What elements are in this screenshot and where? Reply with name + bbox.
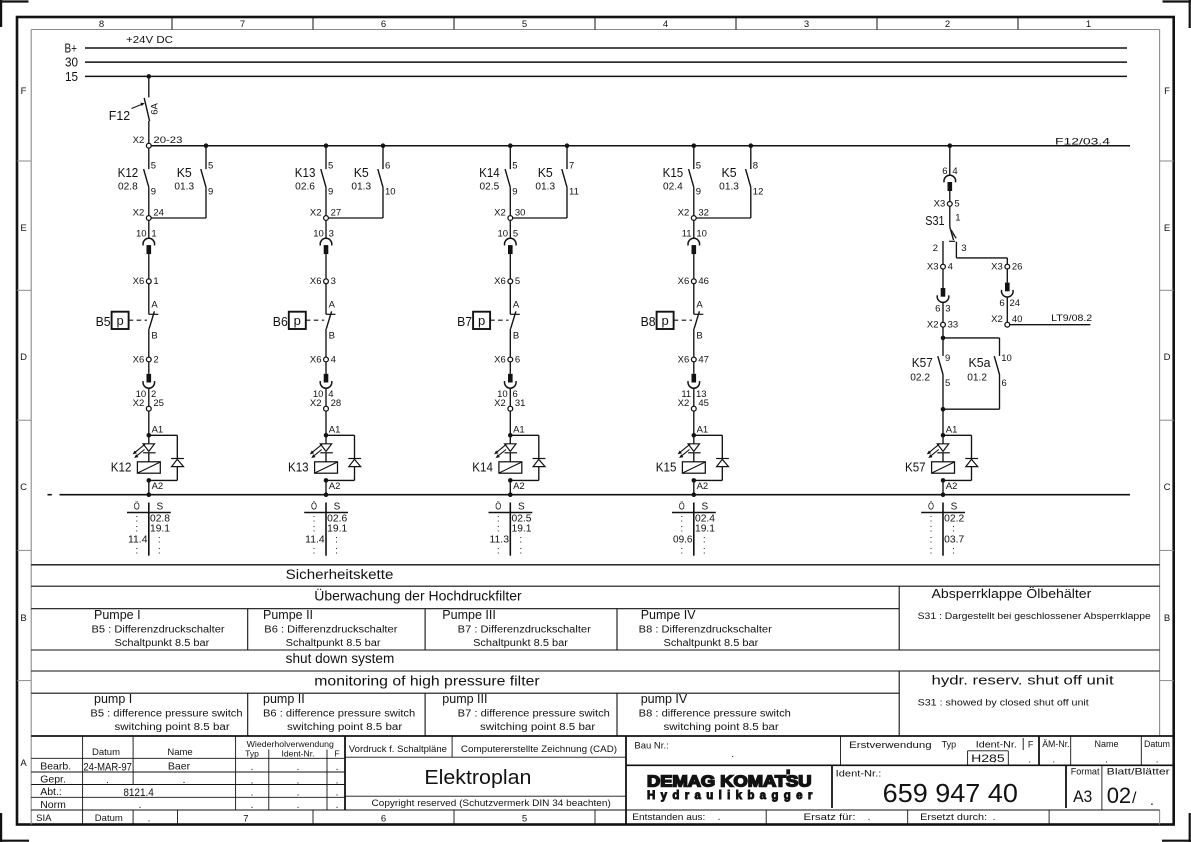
svg-text:11.4: 11.4: [128, 535, 148, 546]
svg-text:A2: A2: [946, 481, 958, 492]
net 30 rail: [65, 55, 1127, 70]
svg-text::: :: [497, 545, 500, 556]
Name header and dot: [1094, 739, 1118, 765]
svg-text:S: S: [334, 501, 341, 512]
svg-text:.: .: [148, 814, 151, 825]
terminal X6:47: [678, 354, 709, 365]
svg-text:K5a: K5a: [969, 355, 992, 370]
relay coil K12: [111, 453, 161, 475]
svg-text:.: .: [251, 762, 254, 773]
wire X2:28 to A1: [325, 411, 327, 435]
contact cross reference table of K15: [672, 500, 716, 556]
terminal X6:2: [133, 354, 159, 365]
svg-text::: :: [680, 545, 683, 556]
svg-text:.: .: [139, 800, 142, 811]
svg-text:B5 : difference pressure switc: B5 : difference pressure switch: [90, 708, 242, 719]
terminal X6:46: [678, 276, 709, 287]
svg-text:Absperrklappe Ölbehälter: Absperrklappe Ölbehälter: [932, 587, 1092, 601]
terminal X3:26: [991, 261, 1022, 272]
Datum header and dot: [1144, 739, 1170, 765]
svg-text:.: .: [1028, 754, 1031, 765]
node A1 of K57: [941, 425, 958, 438]
svg-text:02.8: 02.8: [118, 182, 138, 193]
svg-text:4: 4: [663, 19, 668, 30]
svg-text:9: 9: [208, 187, 213, 198]
connector 10|6 (plug-socket): [497, 362, 518, 406]
svg-text:Name: Name: [1094, 739, 1118, 749]
row title shut down system: [286, 651, 395, 666]
bottom band left cells: [36, 813, 527, 825]
svg-text:.: .: [183, 775, 186, 786]
junction bus/K13 branch: [324, 143, 329, 148]
svg-text:p: p: [478, 313, 485, 328]
svg-text:Bau Nr.:: Bau Nr.:: [634, 741, 668, 752]
column pump III (difference pressure switch B7): [442, 692, 610, 733]
svg-text:B: B: [513, 331, 519, 342]
minus supply rail: [60, 494, 1131, 496]
svg-text:A1: A1: [697, 425, 709, 436]
svg-text:3: 3: [331, 276, 336, 287]
svg-text:02.6: 02.6: [295, 182, 315, 193]
corner mark top-right: [1163, 0, 1191, 28]
svg-text:5: 5: [151, 160, 156, 171]
svg-text:7: 7: [243, 814, 248, 825]
svg-text:31: 31: [515, 398, 526, 409]
svg-text::: :: [135, 524, 138, 535]
auxiliary contact K5 01.3 branch 2: [351, 146, 395, 218]
svg-text:6: 6: [381, 814, 386, 825]
contact cross reference table of K13: [304, 500, 348, 556]
svg-text:5: 5: [328, 160, 333, 171]
svg-text:25: 25: [153, 398, 164, 409]
junction on rail 15: [147, 74, 152, 79]
auxiliary contact K5 01.3 branch 3: [535, 146, 578, 218]
svg-text:X6: X6: [678, 276, 690, 287]
svg-text:6A: 6A: [150, 103, 161, 115]
svg-text:Überwachung der Hochdruckfilte: Überwachung der Hochdruckfilter: [314, 588, 522, 603]
svg-text::: :: [135, 545, 138, 556]
svg-text:2: 2: [153, 354, 158, 365]
Blatt/Blaetter box: [1107, 767, 1170, 809]
svg-text:.: .: [731, 749, 734, 760]
svg-text:5: 5: [513, 229, 518, 240]
wire K5 to X2:32: [696, 217, 751, 219]
Typ header and H285: [942, 740, 1005, 765]
svg-text:4: 4: [331, 354, 336, 365]
svg-text:pump III: pump III: [442, 692, 487, 706]
copyright line: [372, 798, 611, 809]
svg-text:X3: X3: [927, 261, 939, 272]
svg-text:01.2: 01.2: [967, 372, 987, 383]
svg-text:Wiederholverwendung: Wiederholverwendung: [247, 739, 335, 749]
svg-text:K57: K57: [905, 460, 926, 475]
svg-text:A: A: [20, 758, 27, 769]
relay contact K15 (pins 5/9): [663, 146, 701, 216]
selector switch S31 (shown closed valve position): [925, 206, 966, 254]
svg-text:B: B: [1164, 613, 1170, 624]
corner mark bottom-right: [1162, 813, 1191, 842]
svg-text:S: S: [518, 501, 525, 512]
connector 6|24 (plug-socket): [999, 269, 1020, 322]
junction bus/K5 branch 2: [381, 143, 386, 148]
minus polarity mark: [48, 494, 52, 496]
pressure switch B6 (NC, opens at 8.5 bar): [273, 284, 336, 357]
column Pumpe III (Differenzdruckschalter B7): [442, 608, 591, 649]
terminal X6:3: [310, 276, 336, 287]
svg-text:Ersetzt durch:: Ersetzt durch:: [920, 812, 987, 822]
svg-text:.: .: [336, 800, 339, 811]
svg-text:S: S: [951, 501, 958, 512]
svg-text:Datum: Datum: [1144, 739, 1170, 749]
svg-text:Typ: Typ: [245, 749, 259, 759]
svg-text:Elektroplan: Elektroplan: [424, 767, 531, 789]
junction of K12 on minus rail: [147, 492, 152, 497]
svg-text:switching point 8.5 bar: switching point 8.5 bar: [287, 722, 403, 733]
wire F12 to terminal X2: [148, 121, 150, 143]
left row letter band: [17, 86, 31, 769]
connector 11|10 (plug-socket): [682, 220, 707, 279]
Ident-Nr header and dot: [976, 740, 1017, 766]
svg-text:A2: A2: [152, 481, 164, 492]
svg-text:Entstanden aus:: Entstanden aus:: [632, 812, 705, 822]
wire rail-15 to F12: [148, 76, 150, 97]
svg-text:B6: B6: [273, 314, 288, 329]
svg-text:B8 : Differenzdruckschalter: B8 : Differenzdruckschalter: [639, 624, 773, 635]
relay coil K14: [472, 453, 522, 475]
svg-text:6: 6: [999, 298, 1004, 309]
svg-text:Gepr.: Gepr.: [40, 773, 66, 785]
svg-text:1: 1: [151, 229, 156, 240]
svg-text:Pumpe IV: Pumpe IV: [641, 608, 697, 622]
terminal X6:5: [494, 276, 520, 287]
svg-text:5: 5: [696, 160, 701, 171]
contact cross reference table of K57: [921, 500, 965, 556]
svg-text:28: 28: [331, 398, 342, 409]
row title Ueberwachung der Hochdruckfilter: [314, 588, 522, 603]
svg-text::: :: [158, 535, 161, 546]
svg-text:.: .: [297, 776, 300, 787]
svg-text:30: 30: [515, 207, 526, 218]
svg-text::: :: [335, 545, 338, 556]
svg-text:B8 : difference pressure switc: B8 : difference pressure switch: [639, 708, 791, 719]
svg-text:A: A: [151, 300, 158, 311]
svg-text:K5: K5: [177, 165, 192, 180]
svg-text:Blatt/Blätter: Blatt/Blätter: [1107, 767, 1170, 778]
svg-text:K12: K12: [118, 165, 139, 180]
column pump I (difference pressure switch B5): [90, 692, 242, 733]
svg-text:X2: X2: [927, 320, 939, 331]
svg-text:X2: X2: [133, 207, 145, 218]
svg-text:Schaltpunkt 8.5 bar: Schaltpunkt 8.5 bar: [115, 638, 211, 649]
svg-text:.: .: [1052, 754, 1055, 765]
svg-text:6: 6: [935, 303, 940, 314]
svg-text:3: 3: [804, 19, 809, 30]
svg-text::: :: [519, 545, 522, 556]
svg-text:p: p: [294, 313, 301, 328]
svg-text:K15: K15: [656, 460, 677, 475]
Format A3 box: [1071, 767, 1100, 807]
svg-text:S: S: [156, 501, 163, 512]
svg-text:F12/03.4: F12/03.4: [1055, 137, 1110, 148]
svg-text:.: .: [1150, 792, 1154, 808]
column pump II (difference pressure switch B6): [263, 692, 415, 733]
svg-text:A1: A1: [946, 425, 958, 436]
svg-text:F12: F12: [109, 108, 130, 123]
svg-text:X2: X2: [133, 135, 145, 146]
terminal X3:4: [927, 261, 953, 272]
svg-text:X2: X2: [678, 207, 690, 218]
svg-text:.: .: [336, 788, 339, 799]
svg-text:S31: S31: [925, 213, 944, 228]
node A1 of K14: [508, 425, 525, 438]
svg-text:X3: X3: [991, 261, 1003, 272]
connector 10|5 (plug-socket): [498, 220, 519, 279]
svg-text:X6: X6: [494, 354, 506, 365]
svg-text:B7 : difference pressure switc: B7 : difference pressure switch: [458, 708, 610, 719]
terminal X2:27: [310, 207, 341, 220]
svg-text:5: 5: [208, 160, 213, 171]
svg-text:ÄM-Nr.: ÄM-Nr.: [1042, 739, 1069, 749]
LED indicator of K12: [133, 435, 156, 458]
bottom band grid: [178, 810, 1050, 825]
node A2 of K14: [508, 478, 525, 495]
connector 10|1 (plug-socket): [136, 220, 157, 279]
auxiliary contact K5 01.3 branch 4: [719, 146, 763, 218]
row Norm entry: [40, 799, 338, 811]
terminal X2:28: [310, 398, 341, 411]
wire S31 pin 2 to X3:4: [942, 241, 944, 264]
terminal X2:32: [678, 207, 709, 220]
junction bus/K5 branch 3: [565, 143, 570, 148]
terminal X6:1: [133, 276, 159, 287]
contact cross reference table of K14: [489, 500, 533, 556]
terminal X2:20-23: [133, 135, 183, 148]
svg-text:Schaltpunkt 8.5 bar: Schaltpunkt 8.5 bar: [286, 638, 382, 649]
svg-text:B: B: [20, 613, 26, 624]
pressure switch B5 (NC, opens at 8.5 bar): [96, 284, 159, 357]
svg-text:7: 7: [240, 19, 245, 30]
svg-text:6: 6: [515, 354, 520, 365]
terminal X2:40: [991, 314, 1022, 327]
svg-text:02.2: 02.2: [910, 372, 930, 383]
svg-text:B: B: [329, 331, 335, 342]
svg-text:Ö: Ö: [311, 500, 317, 512]
svg-text:9: 9: [151, 187, 156, 198]
terminal X2:31: [494, 398, 525, 411]
svg-text:p: p: [661, 313, 668, 328]
node A1 of K13: [324, 425, 341, 438]
svg-text:A2: A2: [697, 481, 709, 492]
svg-text:pump IV: pump IV: [641, 692, 688, 706]
net 15 rail: [65, 69, 1127, 84]
F header and dot: [1028, 740, 1034, 766]
svg-text::: :: [952, 545, 955, 556]
wire junction to A1 of K57: [942, 409, 944, 435]
svg-text:.: .: [251, 788, 254, 799]
LED indicator of K13: [310, 435, 333, 458]
svg-text:D: D: [1164, 352, 1171, 363]
svg-text:/: /: [1132, 790, 1137, 807]
svg-text:5: 5: [512, 160, 517, 171]
svg-text:p: p: [116, 313, 123, 328]
svg-text:Sicherheitskette: Sicherheitskette: [286, 567, 394, 582]
bottom band revision cells: [632, 812, 995, 823]
svg-text:.: .: [718, 812, 721, 823]
junction of K57 on minus rail: [941, 492, 946, 497]
terminal X6:4: [310, 354, 336, 365]
svg-text:H285: H285: [971, 753, 1005, 765]
junction node above K57 contact: [941, 336, 946, 341]
svg-text:01.3: 01.3: [174, 182, 194, 193]
svg-text:F: F: [1164, 86, 1170, 97]
node A1 of K15: [692, 425, 709, 438]
svg-text:.: .: [106, 775, 109, 786]
svg-text:3: 3: [945, 303, 950, 314]
junction bus/K15 branch: [692, 143, 697, 148]
svg-text:B8: B8: [641, 314, 656, 329]
column Pumpe IV (Differenzdruckschalter B8): [639, 608, 773, 649]
svg-text:19.1: 19.1: [327, 524, 347, 535]
svg-text:01.3: 01.3: [351, 182, 371, 193]
svg-text:9: 9: [512, 187, 517, 198]
svg-text:09.6: 09.6: [673, 535, 693, 546]
relay contact K12 (pins 5/9): [118, 148, 156, 216]
junction of K15 on minus rail: [692, 492, 697, 497]
LED indicator of K15: [678, 435, 701, 458]
svg-text:.: .: [297, 800, 300, 811]
svg-text:K14: K14: [472, 460, 493, 475]
svg-text:Typ: Typ: [942, 740, 957, 750]
svg-text:X6: X6: [310, 276, 322, 287]
svg-text:A1: A1: [152, 425, 164, 436]
relay contact K13 (pins 5/9): [295, 146, 333, 216]
svg-text:C: C: [1164, 482, 1171, 493]
terminal X2:25: [133, 398, 164, 411]
terminal X3:5: [934, 199, 960, 210]
wire X2:25 to A1: [148, 411, 150, 435]
junction bus/K5 branch 1: [204, 143, 209, 148]
svg-text:X2: X2: [310, 398, 322, 409]
svg-text:A: A: [329, 300, 336, 311]
svg-text:1: 1: [1086, 19, 1091, 30]
svg-text:6: 6: [385, 160, 390, 171]
svg-text:X6: X6: [310, 354, 322, 365]
freewheel diode of K14: [510, 435, 545, 480]
svg-text:19.1: 19.1: [150, 524, 170, 535]
svg-text:26: 26: [1012, 261, 1023, 272]
svg-text:11.4: 11.4: [305, 535, 325, 546]
svg-text:8121.4: 8121.4: [123, 787, 154, 799]
fuse switch F12 6A: [109, 98, 161, 123]
svg-text:B: B: [696, 331, 702, 342]
svg-text:LT9/08.2: LT9/08.2: [1051, 313, 1092, 324]
parallel contact K5a 01.2 (pins 10/6): [943, 338, 1012, 409]
connector 6|4 (plug-socket): [942, 146, 957, 202]
relay coil K57: [905, 453, 955, 475]
wire K5 to X2:27: [328, 217, 383, 219]
svg-text:6: 6: [1002, 378, 1007, 389]
svg-text:02.5: 02.5: [480, 182, 500, 193]
Vordruck header labels: [349, 744, 617, 755]
svg-text:Ö: Ö: [134, 500, 140, 512]
svg-text:X2: X2: [678, 398, 690, 409]
svg-text:.: .: [1105, 754, 1108, 765]
svg-text:K12: K12: [111, 460, 132, 475]
svg-text:B+: B+: [65, 41, 78, 56]
svg-text:47: 47: [698, 354, 709, 365]
freewheel diode of K57: [943, 435, 978, 480]
svg-text:switching point 8.5 bar: switching point 8.5 bar: [115, 722, 231, 733]
node A2 of K13: [324, 478, 341, 495]
svg-text:Format: Format: [1071, 767, 1100, 778]
title block right grid: [626, 736, 1174, 825]
svg-text:DEMAG KOMATSU: DEMAG KOMATSU: [647, 774, 812, 791]
svg-text:5: 5: [515, 276, 520, 287]
svg-text:.: .: [868, 812, 871, 823]
svg-text:24: 24: [1010, 298, 1021, 309]
Vordruck box grid: [345, 736, 626, 796]
svg-text:F: F: [334, 749, 339, 759]
svg-text:Pumpe II: Pumpe II: [263, 608, 313, 622]
corner mark top-left: [0, 0, 29, 27]
svg-text:K5: K5: [354, 165, 369, 180]
junction of K13 on minus rail: [324, 492, 329, 497]
svg-text:10: 10: [136, 229, 147, 240]
svg-text:Ident-Nr.: Ident-Nr.: [976, 740, 1017, 750]
svg-text:A1: A1: [513, 425, 525, 436]
column Absperrklappe Oelbehaelter (S31): [918, 587, 1151, 621]
svg-text:A2: A2: [329, 481, 341, 492]
title block top line: [31, 735, 1174, 737]
left table header labels: [92, 739, 340, 759]
connector 10|2 (plug-socket): [136, 362, 157, 406]
Bau Nr. box: [634, 741, 734, 761]
right row letter band: [1160, 86, 1174, 680]
svg-text:K14: K14: [479, 165, 500, 180]
svg-text:E: E: [20, 223, 26, 234]
svg-text:A3: A3: [1073, 787, 1092, 806]
svg-text:K57: K57: [912, 355, 933, 370]
svg-text:hydr. reserv. shut off unit: hydr. reserv. shut off unit: [932, 674, 1115, 688]
svg-text:A: A: [696, 300, 703, 311]
svg-text:F: F: [1028, 740, 1034, 750]
svg-text:20-23: 20-23: [153, 135, 182, 146]
svg-text:.: .: [1156, 754, 1159, 765]
bus wire from X2 20-23: [151, 137, 1130, 148]
terminal X2:33: [927, 320, 958, 331]
svg-text:K13: K13: [288, 460, 309, 475]
svg-text::: :: [158, 545, 161, 556]
svg-text::: :: [703, 545, 706, 556]
svg-text:11.3: 11.3: [490, 535, 510, 546]
svg-text:B7 : Differenzdruckschalter: B7 : Differenzdruckschalter: [458, 624, 592, 635]
node A2 of K12: [147, 478, 164, 495]
freewheel diode of K13: [326, 435, 361, 480]
junction bus/K14 branch: [508, 143, 513, 148]
svg-text:A1: A1: [329, 425, 341, 436]
row Gepr. entry: [40, 773, 338, 786]
svg-text:A: A: [513, 300, 520, 311]
svg-text:24: 24: [153, 207, 164, 218]
svg-text:19.1: 19.1: [512, 524, 532, 535]
svg-text:Datum: Datum: [95, 813, 123, 824]
svg-text:24-MAR-97: 24-MAR-97: [83, 761, 131, 773]
top coordinate band: [99, 17, 1091, 30]
svg-text:Copyright reserved (Schutzverm: Copyright reserved (Schutzvermerk DIN 34…: [372, 798, 611, 809]
node A1 of K12: [147, 425, 164, 438]
contact cross reference table of K12: [127, 500, 171, 556]
svg-text:X6: X6: [133, 354, 145, 365]
